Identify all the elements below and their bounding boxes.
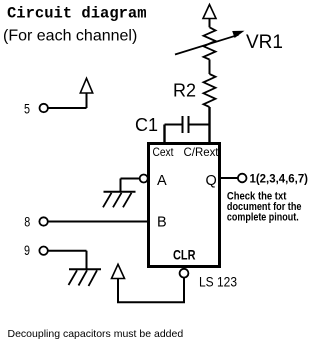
pin 5 terminal circle <box>40 104 48 112</box>
resistor R2 zigzag <box>204 74 216 107</box>
wire C1 left lead down to IC Cext pin <box>163 125 165 144</box>
inverter bubble on pin A <box>140 175 148 183</box>
svg-text:5: 5 <box>24 101 30 117</box>
ground 1 stroke 2 <box>113 193 122 208</box>
wire Q output <box>221 177 238 179</box>
wire pin8 to B <box>48 221 149 223</box>
svg-text:Circuit diagram: Circuit diagram <box>7 5 147 23</box>
svg-text:(For each channel): (For each channel) <box>3 28 137 45</box>
ground 2 stroke 1 <box>69 270 78 285</box>
wire R2 down to IC C/Rext pin <box>208 107 210 143</box>
svg-text:Decoupling capacitors must be: Decoupling capacitors must be added <box>8 328 184 340</box>
power symbol pin5 (open up-arrow) <box>80 78 92 93</box>
svg-text:R2: R2 <box>173 81 196 101</box>
wire up to power arrow <box>117 279 119 303</box>
svg-text:A: A <box>157 173 167 189</box>
wire pin5 horizontal <box>48 107 87 109</box>
svg-text:B: B <box>157 214 167 230</box>
svg-text:C1: C1 <box>135 115 158 135</box>
svg-text:Cext: Cext <box>153 145 175 159</box>
inverter bubble on CLR pin <box>180 269 189 278</box>
capacitor C1 left lead <box>165 124 183 126</box>
wire CLR bottom horizontal <box>117 301 185 303</box>
Q output terminal circle <box>238 174 247 183</box>
wire pin9 vertical to ground 2 <box>86 251 88 269</box>
svg-text:LS 123: LS 123 <box>199 274 237 290</box>
wire CLR bubble down <box>183 278 185 303</box>
ground 2 stroke 3 <box>89 270 98 286</box>
svg-text:8: 8 <box>24 214 30 229</box>
wire VR1 to R2 <box>209 60 211 75</box>
svg-text:1(2,3,4,6,7): 1(2,3,4,6,7) <box>250 172 309 186</box>
svg-text:C/Rext: C/Rext <box>184 145 220 159</box>
svg-text:Q: Q <box>206 173 217 189</box>
wire pin9 horizontal <box>48 250 87 252</box>
svg-text:9: 9 <box>24 243 30 258</box>
power symbol (top, open up-arrow) <box>203 5 216 19</box>
svg-text:CLR: CLR <box>173 247 196 263</box>
power symbol CLR (open up-arrow) <box>112 264 125 278</box>
wire power to VR1 <box>209 19 211 28</box>
ground 1 stroke 1 <box>103 193 112 208</box>
IC U1 LS123 body <box>149 144 220 267</box>
pin 8 terminal circle <box>39 217 47 225</box>
pin 9 terminal circle <box>39 247 47 255</box>
resistor VR1 zigzag <box>204 27 216 59</box>
ground 2 stroke 2 <box>79 270 88 285</box>
VR1 wiper arrowhead <box>232 31 244 38</box>
wire down to ground 1 <box>120 179 122 192</box>
svg-text:VR1: VR1 <box>246 32 283 53</box>
svg-text:complete pinout.: complete pinout. <box>227 212 299 224</box>
wire pin5 vertical <box>86 93 88 108</box>
ground 1 stroke 3 <box>123 193 132 208</box>
ground 2 bar <box>69 268 101 270</box>
capacitor C1 left plate <box>182 116 184 133</box>
wire A bubble to ground <box>121 178 140 180</box>
capacitor C1 right lead <box>190 124 211 126</box>
capacitor C1 right plate <box>188 116 190 133</box>
VR1 wiper arrow line <box>175 35 239 55</box>
ground 1 bar <box>104 191 136 193</box>
